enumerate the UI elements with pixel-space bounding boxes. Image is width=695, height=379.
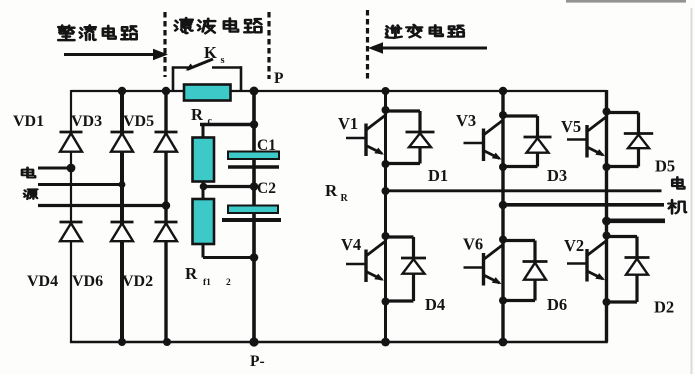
section boundary dashed line 2 — [267, 12, 270, 79]
section boundary dashed line 3 — [366, 10, 369, 79]
svg-text:2: 2 — [226, 278, 231, 288]
svg-text:VD4: VD4 — [27, 273, 58, 290]
svg-text:VD6: VD6 — [72, 273, 103, 290]
svg-text:R: R — [185, 264, 198, 283]
wire: midpoint tie between Rf1/Rf2 and C1/C2 — [203, 185, 254, 188]
wire: resistor branch bottom tie — [203, 256, 254, 259]
diode VD1 — [60, 132, 83, 152]
svg-text:D3: D3 — [547, 166, 567, 185]
wire: inverter leg 3 (V5/V2) — [605, 90, 608, 342]
svg-text:D2: D2 — [654, 298, 674, 317]
capacitor C1 — [228, 152, 279, 160]
arrow pointing to inverter boundary — [368, 42, 487, 53]
node P — [253, 90, 255, 92]
freewheeling diode D1 — [386, 111, 435, 164]
wire: AC input phase 2 — [38, 183, 122, 186]
wire: filter mid column (P rail down) — [252, 91, 256, 342]
svg-text:V5: V5 — [561, 117, 581, 136]
svg-text:V2: V2 — [564, 236, 584, 255]
diode VD4 — [60, 222, 83, 241]
label: filter section title 滤波电路 — [175, 18, 262, 33]
IGBT transistor V2 — [567, 232, 611, 307]
resistor Rs (charging resistor, on DC bus) — [184, 85, 231, 101]
svg-text:VD1: VD1 — [13, 113, 44, 130]
svg-text:C2: C2 — [257, 180, 276, 197]
label: AC source 电源 — [22, 167, 38, 199]
capacitor C2 — [228, 206, 278, 214]
diode VD3 — [111, 132, 134, 152]
svg-text:VD2: VD2 — [122, 273, 153, 290]
wire: motor phase U — [386, 189, 662, 192]
wire: motor phase W — [607, 219, 666, 224]
wire: negative DC bus P- — [70, 341, 608, 344]
svg-text:P-: P- — [250, 353, 265, 370]
switch Ks (bypass contactor) — [172, 59, 241, 91]
IGBT transistor V5 — [567, 108, 611, 172]
IGBT transistor V6 — [464, 236, 508, 305]
svg-text:R: R — [325, 181, 338, 200]
svg-text:V3: V3 — [456, 111, 476, 130]
node: bottom bus junctions — [118, 337, 507, 346]
svg-text:V1: V1 — [338, 114, 358, 133]
svg-text:VD5: VD5 — [123, 113, 154, 130]
section boundary dashed line 1 — [163, 12, 166, 77]
freewheeling diode D6 — [503, 241, 548, 301]
node: top bus junctions — [118, 87, 507, 96]
arrow pointing to rectifier/filter boundary — [64, 49, 168, 60]
svg-text:D6: D6 — [547, 295, 567, 314]
freewheeling diode D4 — [386, 237, 427, 301]
border artifact top-right gray bar — [566, 0, 686, 3]
svg-text:D4: D4 — [425, 295, 445, 314]
svg-text:f1: f1 — [203, 278, 211, 288]
IGBT transistor V4 — [346, 232, 390, 306]
diode VD6 — [111, 222, 134, 241]
svg-text:V4: V4 — [341, 235, 361, 254]
freewheeling diode D2 — [607, 237, 650, 303]
wire: inverter leg 2 (V3/V6) — [501, 91, 504, 342]
freewheeling diode D3 — [503, 116, 552, 167]
border artifact right edge light line — [691, 8, 693, 374]
label: motor 电机 — [668, 177, 686, 213]
wire: rectifier leg 2 (VD3/VD6) — [120, 91, 124, 342]
diode VD2 — [155, 222, 178, 241]
wire: rectifier leg 1 (VD1/VD4) — [70, 90, 72, 343]
wire: AC input phase 1 — [38, 167, 71, 170]
IGBT transistor V3 — [464, 111, 508, 171]
wire: positive DC bus P — [71, 90, 607, 92]
svg-text:C1: C1 — [257, 137, 276, 154]
svg-text:D1: D1 — [428, 166, 448, 185]
wire: inverter leg 1 (V1/V4) — [384, 91, 387, 342]
wire: rectifier leg 3 (VD5/VD2) — [164, 91, 167, 342]
wire: resistor branch top tie — [200, 123, 254, 127]
freewheeling diode D5 — [607, 113, 654, 167]
label: inverter section title 逆变电路 — [386, 25, 464, 38]
resistor Rf1 — [193, 138, 215, 182]
svg-text:VD3: VD3 — [71, 113, 102, 130]
resistor Rf2 — [193, 199, 215, 244]
svg-text:R: R — [341, 193, 349, 204]
svg-text:D5: D5 — [655, 157, 675, 176]
svg-text:R: R — [191, 105, 204, 124]
diode VD5 — [155, 132, 178, 152]
wire: AC input phase 3 — [38, 204, 166, 207]
svg-text:s: s — [221, 55, 225, 66]
label: rectifier section title 整流电路 — [58, 25, 136, 40]
svg-text:P: P — [274, 70, 284, 87]
IGBT transistor V1 — [346, 106, 390, 168]
svg-text:V6: V6 — [463, 235, 483, 254]
svg-text:K: K — [204, 43, 217, 62]
wire: motor phase V — [503, 203, 664, 207]
